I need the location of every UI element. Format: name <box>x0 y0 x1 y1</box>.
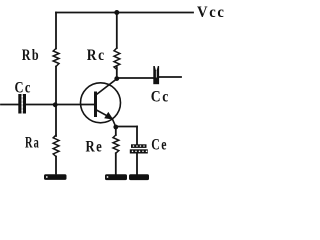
svg-text:Ce: Ce <box>151 136 168 153</box>
node collector junction <box>114 76 119 81</box>
wire Rc top segment <box>116 13 118 49</box>
wire Rb top segment <box>55 13 57 49</box>
wire output right <box>159 76 181 78</box>
wire Ra top segment <box>55 105 57 137</box>
wire Rc to collector node <box>116 67 118 79</box>
svg-text:Rc: Rc <box>87 47 106 64</box>
svg-text:Vcc: Vcc <box>197 4 226 21</box>
node Vcc rail junction <box>114 10 119 15</box>
transistor Q1 base bar <box>94 93 97 116</box>
node emitter junction <box>113 125 118 130</box>
transistor Q1 circle <box>81 83 121 123</box>
capacitor Cc input plates <box>18 94 26 114</box>
svg-text:Cc: Cc <box>151 89 170 106</box>
transistor Q1 emitter arrow <box>104 112 113 120</box>
transistor Q1 collector lead <box>96 79 117 95</box>
ground under Ce <box>129 174 149 180</box>
wire input left <box>1 104 19 106</box>
transistor Q1 emitter lead <box>96 110 116 127</box>
wire Vcc top rail <box>56 12 193 14</box>
ground under Re <box>105 174 127 180</box>
wire emitter node right <box>116 126 137 128</box>
resistor Re <box>113 135 119 153</box>
svg-text:Rb: Rb <box>22 47 40 64</box>
wire Ce branch down <box>136 127 138 145</box>
wire base to transistor <box>56 104 96 106</box>
resistor Rb <box>53 49 59 67</box>
wire Rb bottom to base node <box>55 67 57 105</box>
svg-text:Cc: Cc <box>15 80 32 97</box>
wire output left <box>117 77 154 79</box>
wire Ce to ground <box>136 154 138 175</box>
wire Re to ground <box>115 153 117 174</box>
svg-text:Ra: Ra <box>25 135 40 152</box>
node base junction <box>53 102 58 107</box>
capacitor Cc output plates <box>153 66 159 85</box>
capacitor Ce plates <box>130 144 148 153</box>
resistor Rc <box>114 48 120 70</box>
svg-text:Re: Re <box>86 139 104 156</box>
wire Re top segment <box>115 127 117 136</box>
wire Ra to ground <box>55 157 57 174</box>
ground under Ra <box>44 174 67 180</box>
resistor Ra <box>53 135 59 157</box>
wire input cap to base node <box>26 104 56 106</box>
